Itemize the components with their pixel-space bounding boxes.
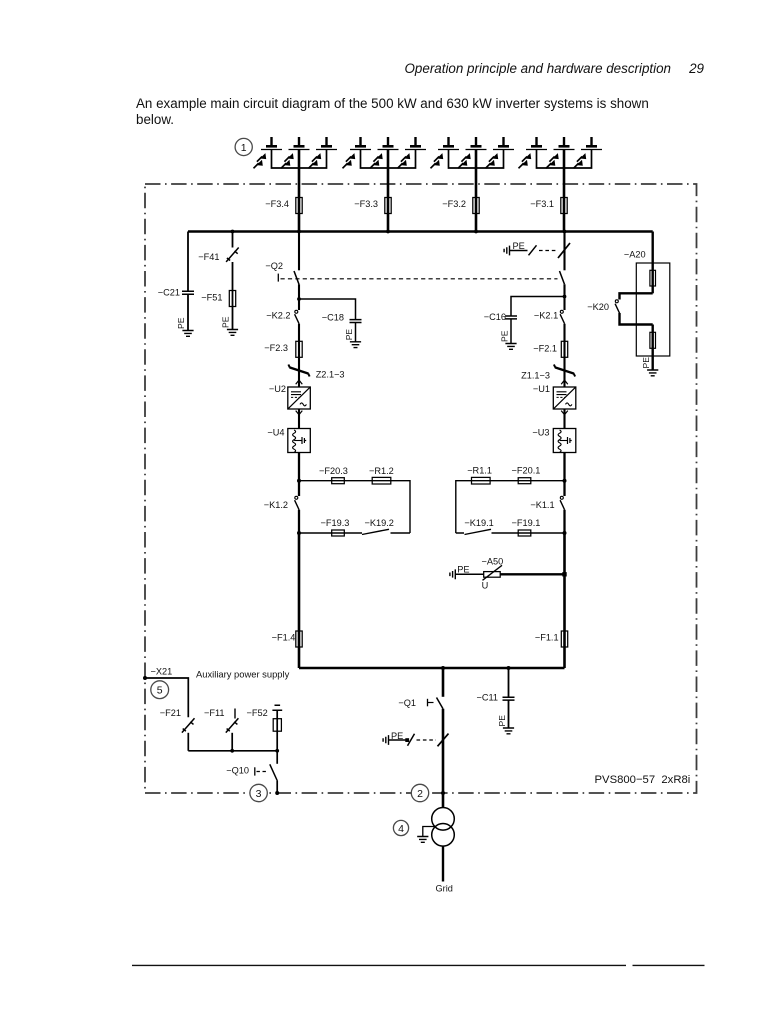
A20 unit box	[624, 250, 670, 356]
svg-text:−K19.2: −K19.2	[365, 518, 394, 528]
svg-text:−U4: −U4	[267, 427, 284, 437]
fuse F2.1	[533, 341, 567, 357]
main AC switch Q1	[398, 698, 443, 709]
svg-text:Z2.1−3: Z2.1−3	[316, 370, 345, 380]
svg-text:PVS800−57 2xR8i: PVS800−57 2xR8i	[595, 774, 691, 786]
wire: X21 to F21	[145, 678, 188, 717]
contactor K1.2	[264, 496, 301, 535]
type designation PVS800-57 2xR8i	[595, 774, 691, 786]
svg-text:−U2: −U2	[269, 384, 286, 394]
svg-text:PE: PE	[176, 317, 186, 329]
contactor K2.2	[266, 310, 299, 324]
wire: U4 down to charging bypass nodes	[297, 453, 301, 497]
svg-text:below.: below.	[136, 112, 174, 127]
fuse F52	[246, 705, 282, 751]
fuse F51 with PE ground	[201, 262, 238, 335]
wire: left inverter chain (bus to Q2)	[298, 232, 300, 271]
wire: right chain to AC bus through F1.1	[563, 533, 566, 668]
header: chapter title and page number	[405, 61, 705, 76]
DC switch Q2 (right pole)	[560, 271, 565, 284]
svg-text:−F41: −F41	[198, 252, 219, 262]
PV string array 3 (photovoltaic cells)	[431, 137, 515, 168]
wire: left chain to AC bus through F1.4	[298, 533, 301, 668]
svg-text:−K2.2: −K2.2	[266, 311, 290, 321]
footer rule	[132, 964, 705, 966]
wire: U1 to U3	[563, 409, 565, 429]
svg-text:PE: PE	[221, 316, 231, 328]
svg-text:5: 5	[157, 685, 163, 697]
svg-text:−F19.3: −F19.3	[321, 518, 350, 528]
fuse-switch F41	[198, 232, 238, 262]
wire: AC output bus	[299, 666, 565, 670]
wire: DC bus	[188, 230, 653, 233]
fuse F3.3	[354, 198, 391, 214]
contactor K20	[587, 293, 652, 324]
LCL filter module U4	[267, 427, 310, 452]
wire: DC bus to A20 unit	[652, 232, 654, 264]
svg-text:−Q2: −Q2	[265, 261, 283, 271]
voltage transducer A50 with PE ground	[450, 556, 567, 590]
svg-text:An example main circuit diagra: An example main circuit diagram of the 5…	[136, 96, 649, 111]
svg-text:−C18: −C18	[322, 312, 344, 322]
svg-text:4: 4	[398, 823, 404, 835]
wire: aux bus	[188, 749, 279, 753]
wire: U2 to U4	[298, 409, 300, 429]
svg-text:PE: PE	[457, 564, 469, 574]
wire: PV string drop x=388	[387, 168, 390, 232]
wire: K2.1 to F2.1	[563, 324, 565, 387]
svg-text:PE: PE	[344, 329, 354, 341]
contactor K2.1	[534, 310, 565, 324]
svg-text:−F1.1: −F1.1	[535, 632, 559, 642]
PV string array 4 (photovoltaic cells)	[519, 137, 603, 168]
svg-text:29: 29	[688, 61, 704, 76]
connector arrow below U2	[296, 411, 303, 415]
wire: transformer to grid	[442, 846, 444, 881]
wire: PV string drop x=476	[475, 168, 478, 232]
A20 internal fuse (bottom) with PE ground	[641, 325, 658, 376]
fuse F3.2	[442, 198, 479, 214]
svg-text:−F1.4: −F1.4	[272, 632, 296, 642]
wire: K2.2 to F2.3	[298, 324, 300, 387]
svg-text:PE: PE	[641, 357, 651, 369]
bypass return branch: switch K19.1 and fuse F19.1	[456, 518, 565, 536]
svg-text:−K1.2: −K1.2	[264, 500, 288, 510]
svg-text:Grid: Grid	[436, 883, 453, 893]
bypass return branch: fuse F19.3 and switch K19.2	[299, 518, 410, 536]
capacitor C11 with PE ground	[476, 668, 514, 734]
capacitor C18 with PE ground	[299, 299, 362, 348]
fuse F1.4	[272, 631, 303, 647]
transformer (two overlapping circles) with ground	[417, 808, 454, 847]
svg-text:−F3.2: −F3.2	[442, 199, 466, 209]
svg-text:−C16: −C16	[484, 312, 506, 322]
LCL filter module U3	[532, 427, 575, 452]
svg-text:3: 3	[256, 788, 262, 800]
reference circle 3	[250, 784, 267, 801]
charging branch: wire with fuse F20.3 and resistor R1.2	[299, 466, 410, 533]
connector arrow above U2	[296, 380, 303, 384]
wire: F21 to aux bus	[187, 733, 189, 751]
junction dots on DC bus	[231, 230, 567, 234]
capacitor C16 with PE ground	[484, 297, 565, 350]
svg-text:−K20: −K20	[587, 302, 609, 312]
svg-text:−F11: −F11	[204, 708, 225, 718]
svg-text:U: U	[482, 580, 489, 590]
svg-text:Operation principle and hardwa: Operation principle and hardware descrip…	[405, 61, 671, 76]
svg-text:−F3.1: −F3.1	[530, 199, 554, 209]
surge arrester Z2.1-3	[288, 365, 344, 380]
fuse F3.4	[265, 198, 302, 214]
breaker Q10	[226, 751, 279, 795]
svg-text:−K2.1: −K2.1	[534, 311, 558, 321]
connector arrow above U1	[561, 380, 568, 384]
svg-text:−R1.1: −R1.1	[467, 466, 492, 476]
contactor K1.1	[530, 496, 566, 535]
PV string array 2 (photovoltaic cells)	[343, 137, 427, 168]
inverter module U1	[533, 384, 576, 409]
fuse F1.1	[535, 631, 568, 647]
svg-text:−F19.1: −F19.1	[512, 518, 541, 528]
surge arrester Z1.1-3	[521, 365, 575, 381]
wire: Q2 to K2.2, C18 tap node	[297, 284, 301, 310]
fuse F2.3	[264, 341, 302, 357]
svg-text:−U3: −U3	[532, 427, 549, 437]
connector arrow below U1	[561, 411, 568, 415]
svg-text:−F20.3: −F20.3	[319, 466, 348, 476]
PE earthing switch (top) with ground	[504, 241, 570, 258]
wire: right inverter chain (bus to Q2 right pole)	[563, 232, 565, 271]
svg-text:−R1.2: −R1.2	[369, 466, 394, 476]
capacitor C21 with PE ground	[158, 232, 194, 337]
svg-text:−Q10: −Q10	[226, 765, 249, 775]
svg-text:PE: PE	[391, 731, 403, 741]
terminal X21 on enclosure	[143, 667, 172, 681]
svg-text:−U1: −U1	[533, 384, 550, 394]
PV string array 1 (photovoltaic cells)	[254, 137, 338, 168]
svg-text:−C11: −C11	[476, 693, 498, 703]
wire: Q1 down across enclosure border	[441, 709, 445, 808]
svg-text:−A50: −A50	[482, 556, 504, 566]
svg-text:Z1.1−3: Z1.1−3	[521, 370, 550, 380]
wire: AC bus to Q1	[442, 668, 445, 697]
reference circle 5	[151, 681, 169, 699]
svg-text:−F3.4: −F3.4	[265, 199, 289, 209]
svg-text:−A20: −A20	[624, 250, 646, 260]
svg-text:−K1.1: −K1.1	[530, 500, 554, 510]
svg-text:−F21: −F21	[160, 708, 181, 718]
svg-text:PE: PE	[500, 330, 510, 342]
svg-text:−F20.1: −F20.1	[512, 466, 541, 476]
svg-text:−F52: −F52	[246, 708, 267, 718]
svg-text:1: 1	[241, 142, 247, 154]
cabinet enclosure dash-dot border	[145, 184, 697, 793]
A20 internal fuse (top)	[650, 263, 656, 293]
body paragraph	[136, 96, 649, 127]
svg-text:−X21: −X21	[151, 667, 173, 677]
DC switch Q2 (left pole)	[265, 261, 299, 284]
svg-text:PE: PE	[497, 715, 507, 727]
inverter module U2	[269, 384, 310, 409]
reference circle 2	[411, 784, 428, 801]
svg-text:−C21: −C21	[158, 287, 180, 297]
wire: PV string drop x=299	[298, 168, 301, 232]
wire: U3 down to charging bypass nodes	[563, 453, 567, 497]
PE earthing switch (bottom) with ground	[383, 731, 448, 746]
svg-text:−K19.1: −K19.1	[464, 518, 493, 528]
note: Auxiliary power supply	[196, 669, 290, 680]
Q2 interlink dashed line	[281, 278, 558, 280]
svg-text:−F51: −F51	[201, 292, 222, 302]
fuse-switch F21	[160, 708, 195, 733]
svg-text:−F2.3: −F2.3	[264, 343, 288, 353]
fuse-switch F11	[204, 708, 238, 751]
svg-text:2: 2	[417, 788, 423, 800]
node Grid	[436, 883, 453, 893]
charging branch: resistor R1.1 and fuse F20.1	[456, 466, 565, 534]
reference circle 4	[393, 820, 408, 835]
svg-text:−F2.1: −F2.1	[533, 344, 557, 354]
svg-text:−Q1: −Q1	[398, 698, 416, 708]
wire: PV string drop x=564	[563, 168, 566, 232]
svg-text:−F3.3: −F3.3	[354, 199, 378, 209]
wire: Q2 to K2.1, C16 tap node	[563, 284, 567, 310]
svg-text:PE: PE	[513, 241, 525, 251]
reference circle 1	[235, 138, 252, 155]
svg-text:Auxiliary power supply: Auxiliary power supply	[196, 669, 290, 680]
fuse F3.1	[530, 198, 567, 214]
